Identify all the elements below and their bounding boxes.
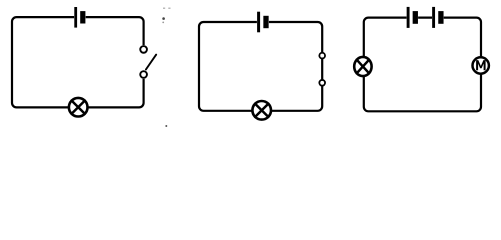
wire loop of circuit 2 <box>199 22 322 111</box>
battery B3 (two cells, top of circuit 3) <box>407 7 444 28</box>
scan speck dash b <box>168 8 170 9</box>
scan speck dot e <box>165 125 167 127</box>
wire loop of circuit 1 <box>12 17 144 107</box>
lamp L1 (bottom of circuit 1) <box>69 98 88 117</box>
switch S2 terminal (lower contact, right side of circuit 2) <box>319 80 325 86</box>
switch S2 terminal (upper contact, right side of circuit 2) <box>319 53 325 59</box>
wire loop of circuit 3 <box>364 18 481 112</box>
lamp L2 (bottom of circuit 2) <box>252 101 271 120</box>
scan speck dash a <box>163 8 165 9</box>
scan speck dot c <box>162 17 165 20</box>
battery B2 (single cell, top of circuit 2) <box>257 12 269 33</box>
switch S1 (open, right side of circuit 1) <box>140 45 156 79</box>
scan speck dot d <box>162 22 164 24</box>
motor M1 (right side of circuit 3) <box>473 57 489 73</box>
lamp L3 (left side of circuit 3) <box>354 57 371 76</box>
battery B1 (single cell, top of circuit 1) <box>74 7 86 28</box>
